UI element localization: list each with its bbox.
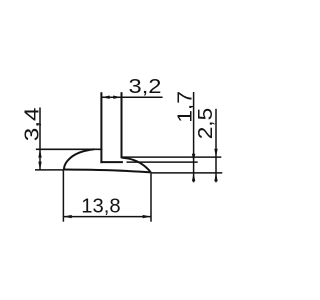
svg-text:13,8: 13,8 [81, 195, 120, 218]
arrow 1,7 down (tip at top ext) [192, 154, 195, 162]
part: dome top plateau + 3,4 top extension line [36, 148, 103, 150]
extension line 1,7 top [127, 161, 198, 163]
extension line shared bottom [151, 172, 223, 174]
dimension line 3,4 [39, 108, 41, 170]
arrow 3,2 right [113, 96, 121, 99]
arrow 13,8 left [63, 215, 71, 218]
svg-text:3,4: 3,4 [20, 108, 43, 142]
arrow 3,2 left [101, 96, 109, 99]
dimension line 2,5 [215, 109, 217, 183]
extension line 13,8 left [62, 170, 64, 222]
arrow 13,8 right [143, 215, 151, 218]
part: dome right curve down to bevel corner [122, 158, 151, 173]
svg-text:3,2: 3,2 [129, 75, 162, 98]
dimension line 1,7 [193, 92, 195, 182]
dimension line 3,2 [101, 96, 162, 98]
part: stem right line [121, 92, 123, 158]
dimension line 13,8 [63, 216, 151, 218]
svg-text:1,7: 1,7 [173, 91, 196, 123]
svg-text:2,5: 2,5 [194, 108, 217, 140]
arrow 1,7 up (tip at bottom ext) [192, 173, 195, 181]
extension line 13,8 right [150, 173, 152, 221]
arrow 2,5 up (tip at bottom ext) [214, 173, 217, 181]
part: stem left line [100, 92, 102, 163]
extension line 3,4 bottom [35, 169, 64, 171]
arrow 3,4 down [38, 162, 41, 170]
arrow 3,4 up [38, 149, 41, 157]
part: right top surface + 2,5 top extension line [122, 156, 222, 158]
arrow 2,5 down (tip at top ext) [214, 149, 217, 157]
part: stem bottom line [100, 161, 123, 163]
part: brim underside line [64, 170, 151, 173]
part: dome left arc [64, 149, 94, 169]
